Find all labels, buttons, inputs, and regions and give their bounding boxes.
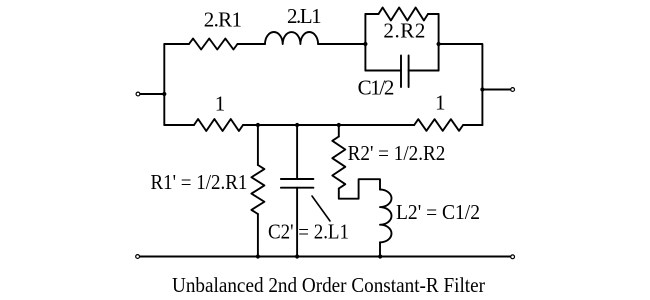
svg-text:2.L1: 2.L1 [287, 4, 322, 28]
node: shunt RL top dot [337, 123, 341, 127]
wire top branch lead-in [164, 43, 189, 45]
wire shunt R top lead [257, 125, 259, 165]
wire input stub [140, 93, 164, 95]
capacitor C2' [281, 179, 314, 188]
node: shunt C top dot [295, 123, 299, 127]
wire right resistor to riser [463, 124, 482, 126]
inductor 2.L1 [265, 32, 318, 44]
inductor L2' [380, 190, 392, 243]
ground-side right terminal [511, 255, 515, 259]
wire tank top right stub [428, 13, 439, 15]
svg-text:L2' = C1/2: L2' = C1/2 [396, 200, 480, 224]
node: tank left junction dot [363, 42, 367, 46]
svg-text:C1/2: C1/2 [358, 76, 395, 100]
wire tank to output riser [439, 44, 483, 125]
resistor 1 (right series) [414, 119, 463, 131]
wire tank top left stub [365, 13, 378, 15]
wire RL bottom lead [379, 242, 381, 256]
svg-text:Unbalanced 2nd Order Constant-: Unbalanced 2nd Order Constant-R Filter [172, 273, 485, 297]
wire tank right side [438, 14, 440, 71]
svg-text:R2' = 1/2.R2: R2' = 1/2.R2 [348, 141, 446, 165]
svg-text:C2' = 2.L1: C2' = 2.L1 [268, 220, 349, 244]
svg-text:R1' = 1/2.R1: R1' = 1/2.R1 [151, 170, 248, 194]
resistor 2.R2 [379, 8, 429, 21]
wire tank bottom right [409, 70, 439, 72]
resistor R1' [251, 165, 264, 214]
wire shunt R bottom lead [257, 214, 259, 257]
resistor 1 (left series) [194, 119, 243, 131]
node: shunt R bottom dot [256, 254, 260, 258]
input terminal (top left port) [136, 92, 140, 96]
node: RL bottom dot [378, 254, 382, 258]
resistor 2.R1 [189, 39, 237, 50]
node: output junction dot [480, 87, 484, 91]
wire middle branch lead-in [164, 124, 194, 126]
wire 2.L1 to tank [318, 43, 365, 45]
svg-text:2.R2: 2.R2 [383, 19, 425, 43]
wire left vertical riser [163, 44, 165, 125]
bottom rail wire [140, 256, 511, 258]
svg-text:2.R1: 2.R1 [204, 7, 242, 31]
wire shunt C top lead [296, 125, 298, 179]
output terminal (top right port) [511, 88, 515, 92]
wire shunt RL top lead [338, 125, 340, 137]
svg-text:1: 1 [435, 91, 446, 115]
capacitor C2' pointer line [312, 196, 330, 221]
wire shunt C bottom lead [296, 188, 298, 257]
wire tank left side [364, 14, 366, 71]
resistor R2' [332, 137, 345, 189]
node: shunt C bottom dot [295, 254, 299, 258]
node: input junction dot [162, 92, 166, 96]
wire tank bottom left [365, 70, 401, 72]
ground-side left terminal [136, 255, 140, 259]
wire RL jog [339, 179, 380, 199]
capacitor C1/2 [401, 56, 409, 88]
node: shunt R top dot [256, 123, 260, 127]
wire output stub [482, 89, 510, 91]
svg-text:1: 1 [215, 92, 226, 116]
wire between 2.R1 and 2.L1 [238, 43, 266, 45]
wire middle span [243, 124, 414, 126]
node: tank right junction dot [437, 42, 441, 46]
